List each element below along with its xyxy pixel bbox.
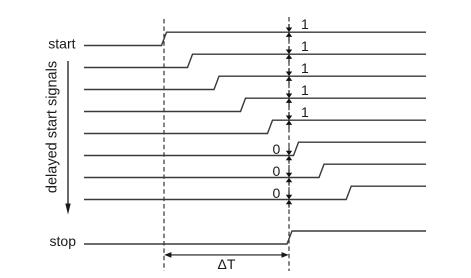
svg-text:0: 0 (273, 163, 281, 179)
wire waveform delayed 3 (84, 98, 426, 111)
sample marker row6 (286, 147, 292, 163)
svg-text:1: 1 (301, 104, 309, 120)
dashed line left (start edge time) (163, 19, 165, 271)
sample marker row3 (286, 68, 292, 84)
wire waveform start (84, 32, 426, 45)
sample marker row4 (286, 90, 292, 106)
svg-text:delayed start signals: delayed start signals (45, 61, 61, 193)
svg-text:1: 1 (301, 16, 309, 32)
svg-text:stop: stop (50, 233, 77, 249)
svg-text:1: 1 (301, 60, 309, 76)
wire waveform delayed 1 (84, 54, 426, 67)
wire waveform stop (84, 231, 426, 244)
svg-text:0: 0 (273, 185, 281, 201)
sample marker row8 (286, 191, 292, 207)
wire waveform delayed 6 (84, 164, 426, 177)
wire waveform delayed 2 (84, 76, 426, 89)
wire waveform delayed 7 (84, 186, 426, 199)
sample marker row5 (286, 112, 292, 128)
dashed line right (stop edge / sampling time) (288, 17, 290, 271)
svg-text:1: 1 (301, 38, 309, 54)
dimension arrow deltaT (168, 254, 285, 256)
sample marker row2 (286, 46, 292, 62)
wire waveform delayed 4 (84, 120, 426, 133)
svg-text:0: 0 (273, 141, 281, 157)
svg-text:1: 1 (301, 82, 309, 98)
wire waveform delayed 5 (84, 142, 426, 155)
sample marker row7 (286, 169, 292, 185)
sample marker row1 (286, 24, 292, 40)
arrow delayed-signals axis (67, 61, 69, 206)
svg-text:start: start (48, 35, 75, 51)
svg-text:ΔT: ΔT (218, 256, 236, 272)
